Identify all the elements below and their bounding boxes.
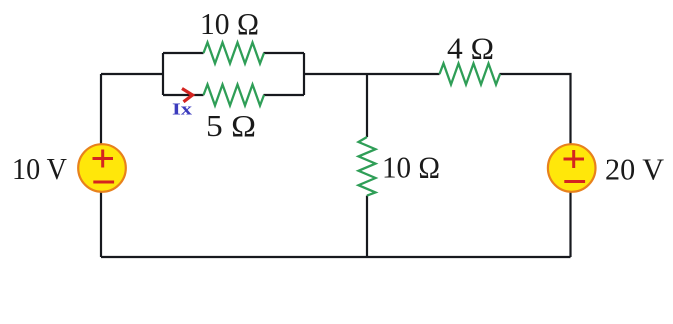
svg-text:4 Ω: 4 Ω — [447, 31, 494, 66]
svg-text:10 Ω: 10 Ω — [200, 6, 259, 41]
svg-text:10 Ω: 10 Ω — [382, 150, 440, 185]
svg-text:Ix: Ix — [172, 100, 193, 119]
svg-text:5 Ω: 5 Ω — [206, 108, 256, 143]
svg-text:10 V: 10 V — [12, 151, 68, 186]
svg-text:20 V: 20 V — [605, 152, 665, 187]
